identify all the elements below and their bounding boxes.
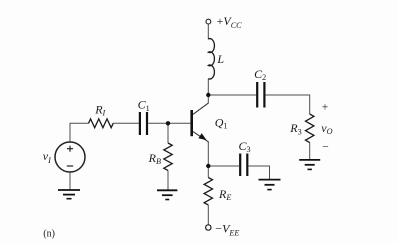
svg-text:L: L <box>216 52 224 66</box>
svg-text:(n): (n) <box>43 229 55 240</box>
svg-text:−: − <box>322 142 329 154</box>
svg-text:+: + <box>322 102 329 114</box>
